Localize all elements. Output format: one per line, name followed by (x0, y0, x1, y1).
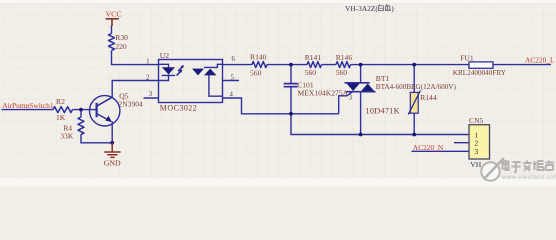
svg-text:10D471K: 10D471K (366, 106, 400, 115)
svg-text:2: 2 (146, 75, 150, 82)
svg-text:33K: 33K (60, 131, 74, 140)
svg-text:R144: R144 (420, 93, 437, 102)
svg-text:3: 3 (349, 94, 353, 101)
svg-text:R2: R2 (56, 97, 65, 106)
svg-text:AC220_L: AC220_L (525, 55, 555, 64)
svg-text:U2: U2 (160, 51, 169, 60)
svg-text:5: 5 (231, 75, 235, 82)
svg-text:560: 560 (250, 69, 262, 78)
svg-text:FU1: FU1 (460, 53, 474, 62)
svg-text:220: 220 (115, 42, 127, 51)
svg-text:2: 2 (475, 140, 479, 148)
svg-text:AC220_N: AC220_N (413, 143, 444, 152)
svg-text:1K: 1K (56, 113, 66, 122)
svg-text:4: 4 (230, 92, 234, 99)
svg-text:GND: GND (104, 159, 121, 168)
svg-text:560: 560 (336, 68, 348, 77)
svg-text:AirPumpSwitch1: AirPumpSwitch1 (2, 101, 54, 110)
svg-text:VH-3A2Z(: VH-3A2Z( (345, 4, 378, 13)
svg-text:www.elecfans.com: www.elecfans.com (501, 174, 556, 181)
svg-text:BTA4-600BEG(12A/600V): BTA4-600BEG(12A/600V) (376, 83, 457, 91)
svg-text:560: 560 (305, 68, 317, 77)
svg-text:6: 6 (232, 56, 236, 63)
svg-text:CN5: CN5 (469, 116, 484, 125)
svg-text:R146: R146 (336, 53, 353, 62)
svg-text:2N3904: 2N3904 (118, 100, 143, 109)
svg-text:MEX104K275A: MEX104K275A (298, 88, 349, 97)
svg-text:R140: R140 (250, 53, 267, 62)
svg-text:BT1: BT1 (376, 74, 390, 83)
svg-text:VH: VH (470, 160, 481, 169)
svg-text:R141: R141 (305, 53, 322, 62)
svg-text:VCC: VCC (106, 10, 122, 19)
svg-text:3: 3 (475, 148, 479, 156)
svg-text:3: 3 (149, 91, 153, 98)
svg-text:KRL2400040FRY: KRL2400040FRY (453, 69, 507, 77)
svg-text:1: 1 (475, 131, 479, 139)
svg-text:MOC3022: MOC3022 (160, 103, 197, 112)
svg-text:1: 1 (146, 58, 149, 65)
